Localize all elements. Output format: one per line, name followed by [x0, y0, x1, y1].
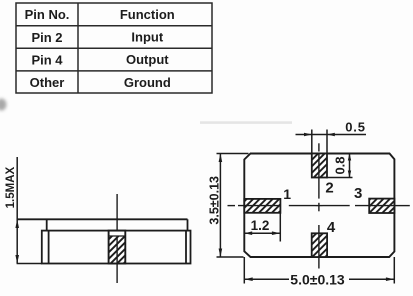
dimension 3.5±0.13 arrows [219, 154, 223, 258]
footprint: pad 1 [244, 199, 280, 213]
svg-text:0.5: 0.5 [345, 120, 365, 135]
svg-text:Pin 2: Pin 2 [31, 30, 62, 45]
scan artifact smudges [0, 99, 292, 124]
dimension 1.2 lines [244, 213, 280, 242]
footprint: pad 2 [312, 154, 327, 178]
footprint: pad 4 [312, 233, 327, 257]
footprint: vertical centerline [318, 143, 320, 268]
side view: hatched pad [109, 231, 126, 264]
dimension 0.8 arrows [348, 153, 351, 177]
side view: centerline [116, 194, 118, 283]
side view: body [42, 231, 191, 264]
svg-text:Pin No.: Pin No. [25, 7, 70, 22]
side view: bottom extension line [17, 263, 42, 265]
side view: lid sides [47, 219, 188, 230]
dimension 0.5 lines [296, 130, 367, 154]
svg-text:4: 4 [327, 219, 336, 236]
dimension 0.8 lines [326, 153, 353, 177]
svg-text:Pin 4: Pin 4 [31, 52, 63, 67]
side view: lid top line / extension [17, 218, 188, 220]
dimension 0.5 arrows [304, 133, 335, 137]
dimension 3.5±0.13 lines [217, 154, 249, 258]
svg-text:Other: Other [30, 75, 65, 90]
svg-text:1.5MAX: 1.5MAX [5, 167, 17, 209]
side view: dimension arrows [15, 219, 19, 263]
table text [25, 7, 175, 90]
svg-text:2: 2 [325, 180, 333, 197]
dimension 1.2 arrows [244, 231, 280, 235]
dimension 5.0±0.13 arrows [244, 277, 394, 281]
svg-text:0.8: 0.8 [333, 156, 348, 174]
svg-text:1.2: 1.2 [251, 218, 270, 233]
svg-text:Ground: Ground [124, 75, 171, 90]
svg-text:5.0±0.13: 5.0±0.13 [290, 271, 345, 287]
svg-text:Function: Function [120, 7, 175, 22]
footprint: center mark [316, 203, 323, 212]
dimension 5.0±0.13 lines [244, 257, 394, 284]
svg-text:Input: Input [131, 30, 163, 45]
svg-text:1: 1 [283, 186, 291, 202]
side view: dimension line 1.5MAX [16, 157, 18, 264]
footprint: horizontal centerline [228, 205, 410, 207]
svg-text:Output: Output [126, 52, 169, 67]
svg-text:3.5±0.13: 3.5±0.13 [207, 176, 221, 225]
footprint: pad 3 [369, 199, 394, 213]
pin function table [16, 3, 212, 93]
svg-text:3: 3 [354, 185, 362, 202]
footprint: outline with chamfered corners [244, 154, 394, 258]
footprint: pad labels [283, 180, 362, 236]
